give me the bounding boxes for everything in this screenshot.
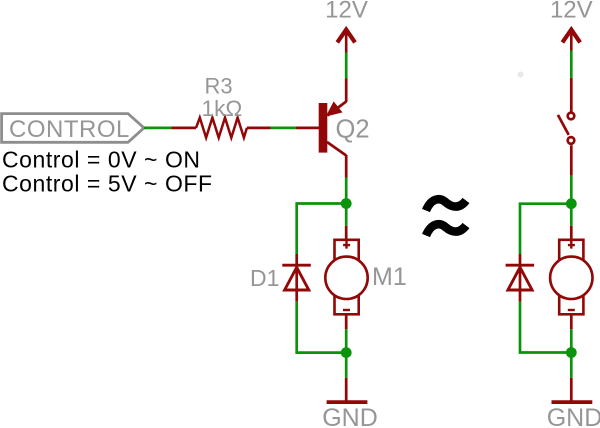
junction node bottom (left) (341, 347, 352, 358)
diode (right) (506, 254, 534, 302)
wire: node to motor (right) (570, 204, 573, 226)
ground symbol (left) (327, 378, 368, 402)
junction node top (left) (341, 198, 352, 209)
transistor Q2 (PNP) (296, 79, 346, 178)
switch S1 (558, 78, 574, 176)
wire: D1 anode to bottom node (left) (297, 302, 347, 353)
wire: motor to bottom node (right) (570, 329, 573, 352)
wire: node to D1 cathode (left) (297, 204, 347, 255)
svg-text:Control = 5V ~ OFF: Control = 5V ~ OFF (2, 171, 213, 197)
svg-text:Control = 0V ~ ON: Control = 0V ~ ON (2, 147, 201, 173)
diode D1 (282, 254, 311, 302)
supply symbol 12V arrow (left) (337, 28, 355, 53)
svg-text:12V: 12V (325, 0, 368, 24)
junction node top (right) (566, 198, 577, 209)
approx-equal symbol (426, 199, 466, 235)
CONTROL input tag (2, 114, 144, 143)
svg-text:GND: GND (322, 404, 378, 428)
wire: node to motor M1 (345, 204, 348, 226)
svg-text:R3: R3 (204, 74, 232, 99)
svg-text:CONTROL: CONTROL (9, 116, 130, 143)
motor M1 (325, 226, 367, 329)
wire: 12V to Q2 emitter (left) (345, 53, 348, 79)
wire: node to diode cathode (right) (520, 204, 571, 254)
wire: 12V to switch (570, 51, 573, 78)
motor (right) (550, 226, 592, 329)
wire: bottom node to GND (left) (345, 353, 348, 378)
supply symbol 12V arrow (right) (562, 28, 580, 51)
svg-text:D1: D1 (250, 265, 279, 291)
wire: switch to node (right) (570, 176, 573, 204)
wire: motor M1 to bottom node (345, 329, 348, 352)
junction node bottom (right) (566, 347, 577, 358)
wire: CONTROL to R3 (144, 127, 172, 130)
faint print artifact dot (518, 72, 524, 78)
wire: bottom node to GND (right) (570, 353, 573, 378)
svg-text:12V: 12V (550, 0, 593, 24)
svg-text:GND: GND (547, 404, 600, 428)
wire: diode anode to bottom node (right) (520, 302, 571, 353)
wire: R3 to Q2 base (271, 127, 297, 130)
wire: Q2 collector to node (left) (345, 178, 348, 204)
svg-text:Q2: Q2 (336, 116, 370, 144)
svg-text:M1: M1 (372, 263, 407, 291)
ground symbol (right) (552, 378, 593, 402)
svg-text:1kΩ: 1kΩ (202, 96, 243, 121)
resistor R3 (172, 118, 271, 138)
